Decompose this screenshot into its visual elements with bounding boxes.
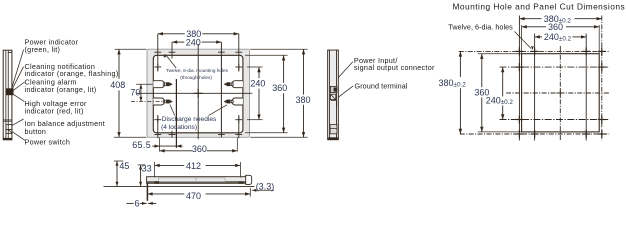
svg-text:(through-holes): (through-holes): [180, 75, 212, 80]
left side view double groove: [3, 119, 12, 121]
dimension 470: [147, 193, 184, 195]
leader from lower-right needle to label: [209, 105, 228, 116]
hole cross right edge row 2: [235, 119, 242, 121]
mounting hole column x=238.8: [238, 34, 240, 72]
extension line x=159.5 below square: [159, 138, 161, 152]
dimension 380 top: [158, 33, 185, 35]
front view vertical centre line: [197, 44, 199, 139]
dimension 380 +-0.2 top of panel cut: [519, 18, 541, 20]
panel cut hole row y=67.1: [500, 66, 610, 68]
panel cut hole row y=51.4 (dash-dot): [459, 50, 609, 52]
right side view body: [328, 50, 339, 140]
svg-text:412: 412: [186, 161, 201, 171]
bottom view bar segment lines: [159, 178, 197, 182]
hole cross left edge row 2: [154, 119, 161, 121]
mounting hole column x=172: [171, 42, 173, 58]
needle mount column x=176.4: [175, 79, 177, 148]
svg-text:signal output connector: signal output connector: [354, 63, 435, 72]
svg-text:(green, lit): (green, lit): [25, 45, 61, 54]
svg-text:240: 240: [186, 37, 201, 47]
front view outer square: [147, 49, 250, 137]
discharge needle upper-right: [232, 81, 243, 88]
discharge needle upper-left: [153, 81, 164, 88]
svg-text:470: 470: [186, 191, 201, 201]
dimension 65.5 bottom: [152, 145, 159, 147]
leader from mounting holes label to hole: [166, 55, 176, 68]
panel cut hole row y=134.0 (dash-dot): [460, 133, 609, 135]
front view inner rounded face: [153, 55, 243, 133]
leader to Ground terminal label: [338, 86, 353, 98]
leader to Power switch label: [12, 132, 25, 141]
left side view top divider: [8, 51, 12, 53]
panel cut hole column x=519.4: [518, 16, 520, 141]
leader to Power indicator label: [12, 50, 24, 88]
svg-text:380±0.2: 380±0.2: [439, 78, 467, 88]
dimension 380 +-0.2 left of panel cut: [459, 51, 461, 77]
svg-text:360: 360: [192, 144, 207, 154]
dimension 240 top: [172, 41, 184, 43]
right side view mid band fill: [330, 51, 336, 140]
svg-text:indicator (orange, lit): indicator (orange, lit): [25, 85, 97, 94]
discharge needle lower-left: [153, 98, 164, 105]
dimension 33: [140, 165, 142, 187]
right side view ground terminal: [330, 94, 335, 99]
right side view bottom foot: [328, 137, 338, 139]
mounting hole column x=221.4: [220, 42, 222, 137]
front view horizontal centre line: [136, 92, 252, 94]
svg-text:360: 360: [548, 22, 563, 32]
svg-text:(4 locations): (4 locations): [161, 124, 197, 131]
svg-text:70: 70: [130, 87, 140, 97]
bottom view end cap: [246, 175, 252, 184]
right side view inner lines: [329, 50, 331, 140]
svg-text:240±0.2: 240±0.2: [486, 96, 514, 106]
svg-text:65.5: 65.5: [132, 140, 151, 150]
left side view bottom foot: [3, 138, 12, 140]
svg-text:360: 360: [272, 83, 287, 93]
dimension 408 left: [118, 49, 120, 79]
svg-text:240±0.2: 240±0.2: [544, 32, 572, 42]
discharge needle lower-right: [232, 98, 243, 105]
dimension 360 left of panel cut: [478, 53, 522, 55]
leader from Twelve label to top-left hole: [515, 32, 532, 49]
leader to Cleaning notification label: [12, 67, 24, 90]
panel cut centre row (dash-dot): [506, 92, 609, 94]
hole cross left edge row 1: [154, 66, 161, 68]
svg-text:Ground terminal: Ground terminal: [355, 81, 408, 90]
svg-text:240: 240: [250, 78, 265, 88]
svg-text:indicator (red, lit): indicator (red, lit): [25, 107, 84, 116]
dimension 360 right of square: [283, 55, 285, 83]
panel cut hole column x=601.8: [601, 16, 603, 141]
panel cut hole column x=534.6: [534, 34, 536, 141]
left side view indicator cluster (dark): [6, 88, 14, 95]
bottom view unit bar: [147, 177, 250, 184]
dimension 412: [155, 164, 185, 166]
left side view inner lines: [5, 50, 7, 140]
right side view lower box: [330, 125, 337, 134]
dimension 360 top of panel cut: [521, 25, 523, 54]
mounting hole column x=157.8: [157, 34, 159, 72]
panel cut square: [522, 54, 600, 132]
svg-text:Twelve, 6-dia. mounting holes: Twelve, 6-dia. mounting holes: [166, 68, 229, 73]
svg-text:408: 408: [110, 80, 125, 90]
dimension 360 bottom: [160, 150, 193, 152]
svg-text:45: 45: [119, 161, 129, 171]
svg-text:Power switch: Power switch: [25, 138, 71, 147]
svg-text:(3.3): (3.3): [256, 182, 275, 192]
dimension 240 +-0.2 top of panel cut: [535, 36, 542, 38]
dimension 45: [116, 161, 118, 186]
left side view mid band fill: [6, 51, 8, 140]
leader to High voltage error label: [12, 93, 25, 101]
hole cross ticks top edge: [154, 51, 161, 53]
svg-text:Discharge needles: Discharge needles: [162, 116, 217, 123]
hole cross ticks bottom edge: [154, 134, 161, 136]
leader from lower-left needle to label: [170, 105, 175, 116]
left side view power switch box: [6, 129, 12, 133]
dimension 240 +-0.2 left of panel cut: [502, 67, 504, 96]
leader to Cleaning alarm label: [12, 82, 25, 91]
extension line x=237.3 below square: [236, 138, 238, 152]
needle extension line upper: [136, 83, 152, 85]
right side view bracket: [331, 100, 337, 102]
front view centre cross mark: [194, 92, 203, 94]
dimension 380 far right of square: [303, 49, 305, 94]
needle axis dash-dot line: [131, 101, 164, 103]
right side view connector: [330, 86, 337, 92]
bottom view panel surface line: [104, 185, 255, 187]
svg-text:button: button: [25, 127, 47, 136]
panel cut centre cross: [556, 92, 564, 94]
svg-text:Mounting Hole and Panel Cut Di: Mounting Hole and Panel Cut Dimensions: [453, 1, 626, 11]
leader to Power Input label: [338, 62, 353, 78]
dimension 70 (needle spacing): [140, 84, 142, 101]
hole cross right edge row 1: [235, 66, 242, 68]
left side view ion balance button: [6, 125, 12, 130]
panel cut hole crosses: [515, 50, 523, 52]
svg-text:380: 380: [296, 95, 311, 105]
bottom view mounting leg: [146, 183, 148, 201]
bottom view right foot: [239, 181, 244, 183]
dimension 240 right of square: [258, 67, 260, 78]
svg-text:33: 33: [142, 163, 152, 173]
dimension 6 (leg thickness): [126, 202, 133, 204]
svg-text:Twelve, 6-dia. holes: Twelve, 6-dia. holes: [448, 23, 513, 32]
bottom view left foot: [155, 181, 160, 183]
left side view body: [3, 50, 12, 140]
leader to Ion balance adjustment label: [12, 119, 24, 126]
panel cut hole row y=119.5: [500, 119, 610, 121]
svg-text:6: 6: [135, 198, 140, 208]
panel cut centre column (dash-dot): [559, 46, 561, 141]
panel cut hole column x=586.2: [585, 34, 587, 141]
dimension (3.3): [252, 189, 274, 191]
